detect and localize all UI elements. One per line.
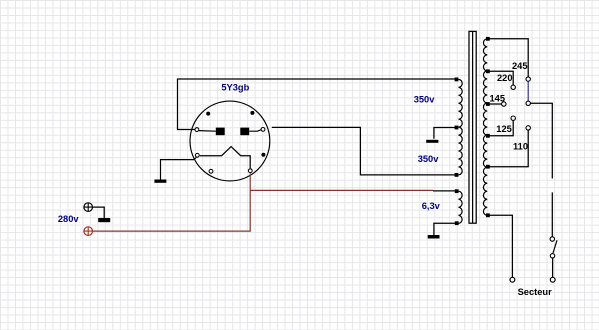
svg-text:245: 245 [512, 61, 528, 71]
tap dot primary top 245 [486, 37, 490, 41]
wire terminal to ground [93, 207, 105, 218]
tap dot HV center [455, 126, 459, 130]
transformer T1 filament winding 6.3v (left) [459, 191, 463, 223]
selector pin 145 [502, 102, 506, 106]
svg-text:5Y3gb: 5Y3gb [221, 83, 249, 93]
svg-text:145: 145 [490, 94, 506, 104]
ground (filament) [154, 180, 166, 183]
switch S1 bottom contact [550, 254, 554, 258]
tap dot 6.3v top [455, 189, 459, 193]
pin 6 (open) [261, 127, 265, 131]
mains terminal left [510, 277, 515, 282]
svg-text:350v: 350v [414, 95, 436, 105]
wire tap 245 to selector pin [488, 39, 528, 77]
wire HV center tap to ground [434, 128, 457, 139]
selector pin 110 [526, 126, 530, 130]
wire common pin to switch line [530, 103, 552, 178]
plate (anode) right [240, 128, 249, 136]
switch S1 top contact [550, 237, 554, 241]
tap dot 6.3v bottom [455, 221, 459, 225]
wire switch line lower segment [551, 192, 553, 236]
selector common pin [526, 101, 530, 105]
wire filament-left to ground [161, 157, 197, 179]
wire tap 220 to selector pin [488, 71, 513, 85]
terminal 280v+ (black, upper) [84, 203, 93, 212]
selector pin 220 [511, 85, 515, 89]
wire pin4 to left plate [199, 130, 216, 133]
pin dot top-left [206, 112, 210, 116]
pin (open, bottom left) [209, 169, 213, 173]
svg-text:110: 110 [513, 142, 528, 152]
svg-text:Secteur: Secteur [518, 287, 552, 297]
transformer T1 primary winding (right) [483, 39, 487, 216]
selector pin 245 [526, 77, 530, 81]
wire tap 110 to selector pin [488, 130, 528, 167]
jumper (navy) selecting 245 to common [527, 81, 529, 101]
ground (280v return) [98, 218, 110, 222]
wire right plate to pin 6 [249, 130, 261, 131]
pin 4 (open) [195, 128, 199, 132]
wire (red) 280v terminal to tube pin 8 cathode [93, 173, 251, 231]
selector pin 125 [511, 116, 515, 120]
tap dot primary 110 [486, 165, 490, 169]
ground (HV center tap) [426, 140, 438, 143]
wire tap 125 to selector pin [488, 120, 513, 135]
ground (6.3v winding) [428, 235, 440, 239]
wire (black) end of 6.3v feed [433, 190, 457, 192]
tap dot HV top 350v [455, 78, 459, 82]
plate (anode) left [216, 128, 225, 136]
svg-text:220: 220 [497, 73, 513, 83]
pin dot right-lower [261, 153, 265, 157]
svg-text:6,3v: 6,3v [422, 201, 441, 211]
svg-text:125: 125 [496, 124, 512, 134]
transformer T1 core [469, 31, 476, 223]
filament (heater) of V1 [200, 147, 250, 169]
terminal 280v+ (red, lower) [84, 227, 93, 236]
svg-text:350v: 350v [418, 154, 440, 164]
tube V1 5Y3gb envelope circle [190, 101, 270, 181]
mains terminal right [550, 277, 555, 282]
tap dot primary 220 [486, 69, 490, 73]
pin 8 (open, filament right) [248, 169, 252, 173]
wire 6.3v winding bottom to ground [434, 223, 457, 235]
switch S1 lever [553, 240, 557, 253]
wire (red) cathode junction to 6.3v winding [250, 189, 433, 191]
transformer T1 secondary HV winding (left) [459, 79, 463, 174]
pin 2 (open, filament left) [195, 153, 199, 157]
wire switch to mains terminal [552, 258, 554, 277]
wire: plate 2 net (tube pin 6 right-down to transformer 350v bottom tap) [272, 127, 457, 174]
pin dot top-right [250, 111, 254, 115]
tap dot primary 145 [486, 102, 490, 106]
svg-text:280v: 280v [58, 214, 80, 224]
tap dot primary 125 [486, 134, 490, 138]
wire tap 145 to selector pin [488, 103, 502, 105]
wire primary bottom to mains terminal [488, 215, 513, 277]
tap dot primary bottom [486, 213, 490, 217]
tap dot HV bottom 350v [455, 173, 459, 177]
wire: plate 1 net (tube pin 4 up-over to transformer 350v top tap) [178, 79, 457, 130]
